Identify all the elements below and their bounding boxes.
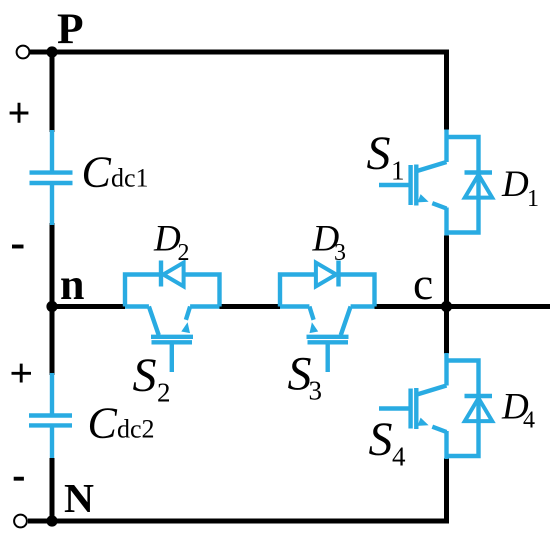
svg-text:C: C xyxy=(82,148,112,197)
svg-text:4: 4 xyxy=(523,408,535,434)
svg-text:D: D xyxy=(501,164,529,205)
svg-text:P: P xyxy=(57,5,84,53)
svg-text:2: 2 xyxy=(178,240,190,266)
svg-text:dc1: dc1 xyxy=(111,164,149,193)
svg-text:3: 3 xyxy=(334,240,346,266)
svg-text:C: C xyxy=(88,398,118,447)
svg-text:n: n xyxy=(60,260,84,309)
svg-text:c: c xyxy=(413,258,433,309)
svg-text:3: 3 xyxy=(309,376,323,406)
svg-text:S: S xyxy=(369,413,393,466)
svg-text:S: S xyxy=(367,127,391,180)
svg-text:S: S xyxy=(133,349,157,402)
svg-text:2: 2 xyxy=(157,378,171,408)
svg-text:1: 1 xyxy=(391,156,405,186)
svg-text:1: 1 xyxy=(527,186,539,212)
svg-text:N: N xyxy=(64,475,94,521)
svg-text:dc2: dc2 xyxy=(117,414,155,443)
svg-text:4: 4 xyxy=(392,442,406,472)
